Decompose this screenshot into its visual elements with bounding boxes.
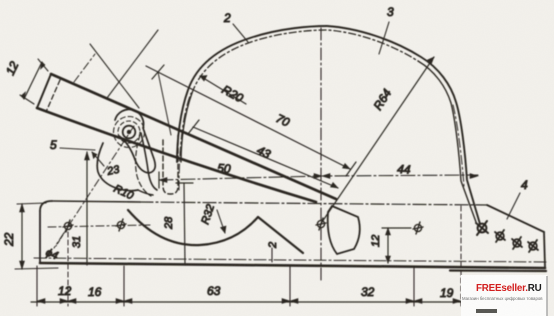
dimension 12 arrows bbox=[21, 62, 45, 99]
dimension 43 arrow bbox=[331, 183, 339, 189]
hole phi4 left bbox=[63, 220, 73, 232]
dimension 50-44 dash-dot line bbox=[159, 175, 478, 180]
plate top edge solid bbox=[52, 201, 140, 202]
R64 arrowhead bbox=[428, 57, 435, 64]
arrow 44 at center line bbox=[314, 174, 330, 179]
pivot center dot bbox=[127, 130, 131, 134]
chain ext hole1 dashed bbox=[67, 232, 69, 306]
arrow 50 left bbox=[159, 178, 167, 183]
plate rounded corner bbox=[40, 201, 52, 211]
lever hidden dashed outline bbox=[136, 135, 151, 196]
arrow 44 right bbox=[470, 174, 478, 179]
chain ext plate left bbox=[36, 266, 38, 306]
dimension 70 right tick bbox=[346, 162, 356, 176]
bow dash-dot center line left bbox=[179, 93, 191, 190]
plate bottom edge bbox=[40, 263, 545, 268]
thin crossing line bbox=[90, 44, 139, 108]
chain arrows bbox=[37, 299, 461, 304]
leader line part 1 bbox=[107, 30, 158, 98]
plate top edge dash-dot bbox=[140, 202, 487, 205]
plate right slant edge bbox=[487, 205, 544, 232]
lever leg bbox=[258, 217, 303, 253]
pivot circle bbox=[123, 126, 136, 139]
dimension 43 line bbox=[193, 127, 338, 188]
chain ext tick5 bbox=[413, 266, 415, 306]
R20 arrowhead bbox=[200, 76, 207, 82]
plate left edge bbox=[39, 211, 41, 263]
muzzle dash-dot axis bbox=[74, 54, 95, 82]
bottom chain dimension line bbox=[31, 301, 468, 303]
dimension 12 ext lines bbox=[20, 59, 48, 104]
pivot axis dash-dot through phi4 hole bbox=[54, 126, 134, 248]
right hole 4 bbox=[528, 240, 538, 252]
dimension 12 right line bbox=[387, 228, 389, 263]
tick 50 left bbox=[158, 172, 160, 188]
chain ext dashed long bbox=[460, 206, 462, 306]
plate bottom dash-dot line bbox=[34, 258, 548, 262]
dimension 70 ext steep bbox=[158, 72, 171, 135]
dimension 70 line bbox=[146, 66, 350, 169]
bow tip hole bbox=[476, 221, 488, 235]
dimension 70 left tick bbox=[152, 65, 164, 79]
dimension 22 line bbox=[21, 204, 23, 269]
dimension R20 line bbox=[200, 76, 246, 104]
hole center pivot plate bbox=[316, 218, 326, 230]
plate bottom edge right thickening bbox=[450, 269, 546, 272]
logo white box bbox=[461, 275, 547, 316]
bow outer curve left limb bbox=[177, 26, 327, 162]
bow inner curve top dashed bbox=[192, 30, 418, 93]
barrel muzzle inner dashed line bbox=[46, 80, 60, 112]
dimension 12 right top leader bbox=[382, 227, 411, 229]
barrel top edge bbox=[51, 74, 336, 199]
label phi4 with dashed leader bbox=[56, 230, 66, 246]
logo right gray line bbox=[546, 276, 548, 316]
holes axis dash-dot bbox=[48, 225, 150, 227]
dimension 12 (muzzle) line bbox=[24, 62, 42, 99]
plate right edge bbox=[544, 232, 545, 267]
sector piece bbox=[328, 206, 360, 254]
dimension 31 arrow top bbox=[85, 152, 90, 160]
sear lower line bbox=[138, 190, 153, 195]
barrel bottom edge bbox=[37, 108, 316, 202]
chain ext tick4 bbox=[289, 266, 291, 306]
label R32 leader bbox=[217, 210, 225, 233]
right hole 3 bbox=[512, 237, 522, 249]
dimension 12 right arrows bbox=[386, 228, 391, 263]
dimension 43 left tick bbox=[188, 120, 199, 134]
right hole 2 bbox=[495, 230, 505, 242]
dimension 22 ext lines bbox=[15, 203, 58, 269]
bow limb pocket dashed bbox=[163, 135, 178, 194]
chain ext tick3 bbox=[123, 266, 125, 306]
bow inner curve right limb bbox=[418, 61, 476, 222]
bow dash-dot center line right bbox=[453, 105, 464, 186]
R32 trigger guard arc bbox=[128, 210, 258, 245]
black bar artifact bbox=[476, 309, 497, 313]
dimension 31 line bbox=[86, 152, 88, 265]
barrel muzzle cap bbox=[37, 74, 51, 108]
pivot dashed circle inner bbox=[118, 121, 140, 143]
dimension R64 line bbox=[322, 57, 434, 222]
bow inner curve left limb bbox=[181, 93, 192, 162]
sear hook bbox=[141, 133, 157, 190]
center vertical dash-dot line bbox=[320, 28, 322, 283]
dimension 28 top tick bbox=[176, 182, 193, 184]
pivot boss outline bbox=[115, 109, 155, 173]
bow outer curve right limb bbox=[327, 26, 480, 224]
dimension 22 arrows bbox=[20, 204, 25, 269]
pivot dashed circle outer bbox=[114, 117, 145, 148]
trigger sear outline R10 bbox=[97, 143, 138, 191]
hole right of center bbox=[413, 222, 423, 234]
dimension 28 line bbox=[184, 183, 185, 265]
dimension 70 arrow bbox=[343, 164, 351, 170]
hole 2 bbox=[116, 219, 126, 231]
